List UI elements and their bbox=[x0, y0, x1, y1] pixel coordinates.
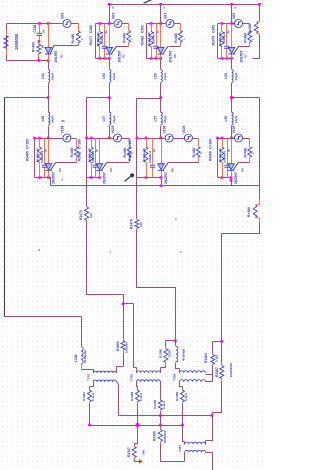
svg-text:0.1E3: 0.1E3 bbox=[215, 354, 219, 362]
svg-text:R=480: R=480 bbox=[122, 33, 126, 43]
wire R1390 lower loop bbox=[161, 444, 185, 462]
wire chain4 lower bbox=[231, 98, 233, 112]
capacitor C4 leads bbox=[226, 24, 228, 59]
wire stage8 leftwire bbox=[217, 139, 219, 178]
wire gate return bbox=[239, 46, 250, 48]
resistor R1347 bbox=[132, 447, 136, 458]
value 14uH lower bbox=[51, 116, 55, 123]
gate resistor leads bbox=[129, 139, 131, 163]
label R1390 bbox=[152, 431, 156, 441]
wire chain4 mid bbox=[231, 84, 233, 98]
resistor R1387 bbox=[220, 366, 224, 379]
resistor R1477 bbox=[98, 31, 102, 46]
node dots stage8 bottom bbox=[221, 176, 233, 179]
resistor R1485 leads bbox=[39, 139, 41, 178]
source V1081 bbox=[184, 134, 192, 142]
value R1500 bbox=[125, 342, 129, 353]
svg-text:C301: C301 bbox=[141, 25, 145, 33]
svg-text:V108: V108 bbox=[163, 125, 167, 133]
label R1389 bbox=[175, 392, 179, 401]
capacitor value bbox=[91, 148, 99, 163]
svg-text:R=480: R=480 bbox=[31, 42, 35, 52]
inductor L68 bbox=[48, 112, 50, 125]
junction dot chain4 row2 bbox=[230, 137, 233, 140]
gate resistor R=480 leads bbox=[180, 24, 182, 47]
svg-text:V1: V1 bbox=[60, 54, 64, 58]
inductor L56 leads bbox=[160, 69, 162, 84]
resistor R1475a leads bbox=[86, 206, 88, 222]
wire stage5 bottom bbox=[35, 177, 49, 179]
label R1480 bbox=[243, 148, 247, 158]
inductor L67 leads bbox=[109, 112, 111, 127]
label VA3 bbox=[111, 13, 115, 19]
junction dot busL main bbox=[136, 423, 140, 427]
label C301 bbox=[141, 25, 145, 33]
wire branch chain4 to right rail bbox=[232, 97, 260, 99]
wire chain3 lower bbox=[160, 98, 162, 112]
svg-text:0.1e-6: 0.1e-6 bbox=[162, 401, 166, 409]
junction dot node mid T3 bbox=[174, 340, 177, 343]
wire stage3 top bbox=[147, 23, 166, 25]
value 14uH lower bbox=[163, 116, 167, 123]
svg-text:2N1597: 2N1597 bbox=[103, 172, 107, 184]
label C305 bbox=[212, 25, 216, 33]
svg-text:10000000: 10000000 bbox=[163, 430, 167, 443]
thyristor 2N1597 leads bbox=[231, 139, 233, 178]
value 1 bbox=[199, 152, 203, 154]
resistor R1483 bbox=[144, 147, 148, 163]
value text snubber bbox=[142, 148, 146, 162]
wire source to gate res bbox=[193, 138, 199, 140]
node label 3 bbox=[39, 248, 41, 252]
svg-text:R1381: R1381 bbox=[82, 392, 86, 401]
junction dot chain2 row2 bbox=[108, 137, 111, 140]
gate resistor R=480 stage1 bbox=[76, 31, 80, 43]
resistor R1500 leads bbox=[123, 339, 125, 353]
wire chain1 mid bbox=[48, 84, 50, 98]
node label 4a bbox=[180, 250, 182, 254]
label V8 bbox=[241, 168, 245, 172]
wire stage2 left bbox=[95, 24, 97, 59]
wire to source0 bbox=[232, 138, 235, 140]
svg-text:C=187: C=187 bbox=[128, 139, 132, 149]
svg-text:C=186: C=186 bbox=[78, 139, 82, 149]
inductor L60 bbox=[109, 70, 111, 83]
svg-text:R1238: R1238 bbox=[153, 400, 157, 409]
svg-text:C287: C287 bbox=[168, 349, 172, 357]
svg-text:0.1e-6: 0.1e-6 bbox=[139, 393, 143, 401]
thyristor 2N1597 bbox=[106, 46, 117, 54]
label R1475a bbox=[79, 210, 83, 220]
source V1030 bbox=[114, 134, 122, 142]
transformer T308 primary bbox=[180, 371, 206, 373]
svg-text:L56: L56 bbox=[153, 73, 157, 79]
node dots stage2 bottom bbox=[98, 57, 110, 60]
label 2N1597 bbox=[103, 172, 107, 184]
label T308 bbox=[173, 374, 177, 381]
node dot stage1 cap top bbox=[38, 22, 41, 25]
svg-text:C=185: C=185 bbox=[26, 139, 30, 149]
svg-text:R=480: R=480 bbox=[70, 148, 74, 158]
gate resistor leads bbox=[198, 139, 200, 163]
wire stage6 bottom bbox=[87, 177, 100, 179]
wire branch chain3 bbox=[137, 99, 161, 139]
resistor R1389 leads bbox=[182, 390, 184, 404]
label cap name bbox=[209, 139, 213, 149]
wire gate return bbox=[169, 46, 181, 48]
label R=480 series bbox=[31, 42, 35, 52]
value R1387 bbox=[229, 363, 233, 377]
wire left branch top bbox=[4, 97, 6, 99]
capacitor C2 bbox=[102, 46, 107, 48]
wire stage8 cathode to bus bbox=[231, 178, 233, 186]
gate resistor R=480 leads bbox=[128, 24, 130, 47]
resistor R1384 bbox=[211, 355, 215, 365]
wire VA2 to R480 bbox=[72, 23, 79, 25]
transformer T206 secondary bbox=[137, 380, 161, 382]
junction dot bus stage7 bbox=[160, 184, 163, 187]
wire T2 sec right down bbox=[160, 382, 162, 400]
junction dot top bus / stage4 rail bbox=[230, 3, 233, 6]
svg-text:1e6: 1e6 bbox=[139, 222, 143, 227]
wire right rail to return bbox=[222, 223, 260, 342]
resistor R1480 inline bbox=[253, 204, 259, 218]
wire chain4 to row2 bbox=[231, 127, 233, 139]
wire R1389 to busL bbox=[182, 404, 184, 426]
svg-text:2u: 2u bbox=[152, 148, 156, 152]
resistor R1386 leads bbox=[165, 347, 167, 366]
junction dot chain2 bbox=[108, 96, 111, 99]
svg-text:24.1E3μH: 24.1E3μH bbox=[83, 350, 87, 363]
node dots stage7 top bbox=[136, 137, 148, 140]
svg-text:L67: L67 bbox=[102, 116, 106, 122]
wire T1 sec left down bbox=[90, 382, 94, 390]
value 1 bbox=[251, 38, 255, 40]
value 1e6 a bbox=[89, 213, 93, 218]
wire R1387 column bbox=[221, 342, 223, 364]
svg-text:L62: L62 bbox=[41, 73, 45, 79]
value R1238 bbox=[162, 401, 166, 409]
label R1500 bbox=[116, 341, 120, 351]
node label 11 bbox=[164, 6, 166, 10]
label L56 bbox=[153, 73, 157, 79]
thyristor 2N1597 leads bbox=[109, 24, 111, 59]
svg-text:R1500: R1500 bbox=[116, 341, 120, 351]
gate resistor leads bbox=[249, 139, 251, 163]
resistor R1384 leads bbox=[212, 354, 214, 366]
junction dot busU T2r bbox=[159, 414, 162, 417]
svg-text:56,494e-08: 56,494e-08 bbox=[218, 32, 222, 46]
wire stage4 rail from bus bbox=[231, 5, 233, 24]
inductor 48uH bbox=[176, 346, 178, 362]
svg-text:60: 60 bbox=[40, 44, 44, 48]
svg-text:V103: V103 bbox=[111, 125, 115, 133]
node dots stage5 top bbox=[33, 137, 41, 140]
capacitor value bbox=[222, 148, 230, 163]
capacitor bbox=[150, 165, 155, 167]
svg-text:2u: 2u bbox=[104, 30, 108, 34]
svg-text:L55: L55 bbox=[224, 116, 228, 122]
wire R1475b chain upper bbox=[136, 178, 138, 219]
gate resistor leads bbox=[76, 139, 78, 163]
svg-text:R=480: R=480 bbox=[192, 148, 196, 158]
wire R1500 to T1 right bbox=[117, 367, 124, 373]
gate resistor R=480 leads bbox=[249, 24, 251, 47]
svg-text:T397: T397 bbox=[178, 445, 182, 452]
wire L228 to T1 bbox=[82, 370, 94, 373]
wire branch chain2 bbox=[87, 98, 110, 139]
label V2 bbox=[122, 54, 126, 58]
transformer T102 secondary bbox=[93, 380, 116, 382]
svg-text:C305: C305 bbox=[212, 25, 216, 33]
value 48uH bbox=[181, 349, 185, 361]
wire gate return bbox=[117, 46, 129, 48]
wire stage8 top bbox=[218, 138, 235, 140]
wire R1500 upper bbox=[123, 295, 125, 304]
inductor L228 bbox=[81, 347, 83, 364]
label R1485 bbox=[26, 151, 30, 161]
svg-text:C=188: C=188 bbox=[209, 139, 213, 149]
thyristor V1 leads bbox=[48, 24, 50, 61]
svg-text:14μH: 14μH bbox=[163, 116, 167, 123]
label R=480 bbox=[122, 33, 126, 43]
junction dot return bbox=[221, 340, 224, 343]
label R1483 bbox=[128, 151, 132, 161]
svg-text:VA3: VA3 bbox=[111, 13, 115, 19]
wire stage4 top bbox=[218, 23, 235, 25]
source VA9 bbox=[235, 20, 243, 28]
label R1388 bbox=[130, 392, 134, 401]
label R1384 bbox=[204, 353, 208, 363]
label C288 bbox=[89, 25, 93, 33]
inductor L59 leads bbox=[231, 69, 233, 84]
svg-text:0.1e-6: 0.1e-6 bbox=[91, 393, 95, 401]
value text snubber bbox=[87, 148, 91, 162]
wire stage3 left bbox=[146, 24, 148, 59]
capacitor leads bbox=[95, 139, 97, 178]
svg-text:R1386: R1386 bbox=[158, 349, 162, 358]
svg-text:R1479: R1479 bbox=[212, 36, 216, 46]
svg-text:V3: V3 bbox=[58, 168, 62, 172]
node dots stage7 bottom bbox=[145, 176, 163, 179]
wire chain4 upper bbox=[231, 59, 233, 69]
node label 1 bbox=[110, 250, 112, 254]
junction dot chain1 bbox=[47, 96, 50, 99]
thyristor V1 bbox=[45, 46, 54, 54]
value R1389 bbox=[184, 393, 188, 401]
wire left rail bottom bbox=[5, 317, 82, 346]
label R1487 bbox=[78, 151, 82, 161]
resistor R1475b leads bbox=[136, 219, 138, 230]
label V6 bbox=[171, 168, 175, 172]
inductor L55 leads bbox=[231, 112, 233, 127]
wire R1381 to busL bbox=[89, 404, 91, 426]
label R1479 bbox=[212, 36, 216, 46]
value 14uH lower bbox=[234, 116, 238, 123]
wire R1388 to busL bbox=[137, 404, 139, 426]
svg-text:2N1597: 2N1597 bbox=[52, 172, 56, 184]
capacitor value bbox=[148, 148, 156, 163]
value R1384 bbox=[215, 354, 219, 362]
wire gate return stage1 bbox=[54, 45, 79, 47]
svg-text:R1483: R1483 bbox=[128, 151, 132, 161]
value R1390 bbox=[163, 430, 167, 443]
wire to source0 bbox=[162, 138, 165, 140]
gate resistor R=480 bbox=[196, 147, 200, 157]
svg-text:56,494e-08: 56,494e-08 bbox=[218, 148, 222, 162]
value 14uH bbox=[112, 73, 116, 80]
resistor R1482 leads bbox=[151, 24, 153, 59]
svg-text:2u: 2u bbox=[155, 30, 159, 34]
wire chain2 lower bbox=[109, 98, 111, 112]
wire T1 sec right to busU bbox=[117, 382, 119, 416]
wire chain3 to row2 bbox=[160, 127, 162, 139]
label R1480 bbox=[70, 148, 74, 158]
svg-text:1e6: 1e6 bbox=[89, 213, 93, 218]
label R1381 bbox=[82, 392, 86, 401]
node dots stage8 top bbox=[216, 137, 223, 140]
junction dot busL T397 bbox=[181, 424, 184, 427]
capacitor value text bbox=[222, 30, 230, 44]
label R=480 right bleed bbox=[248, 24, 252, 34]
svg-text:L68: L68 bbox=[41, 116, 45, 122]
node label 4b bbox=[175, 218, 177, 222]
wire T2 sec left down bbox=[137, 382, 138, 390]
svg-text:2N1597: 2N1597 bbox=[234, 172, 238, 184]
transformer T308 secondary bbox=[180, 380, 206, 382]
svg-text:2u: 2u bbox=[226, 30, 230, 34]
label source0 bbox=[163, 125, 167, 133]
source V1090 bbox=[234, 134, 242, 142]
thyristor 2N1597 leads bbox=[161, 139, 163, 178]
svg-text:14μH: 14μH bbox=[234, 116, 238, 123]
svg-text:R=480: R=480 bbox=[243, 33, 247, 43]
label C188 bbox=[33, 24, 37, 32]
inductor L68 leads bbox=[48, 112, 50, 127]
thyristor 2N1597 bbox=[45, 163, 56, 171]
label V3 bbox=[58, 168, 62, 172]
label R1480 bbox=[247, 207, 251, 217]
capacitor C188 bbox=[37, 33, 42, 35]
label L60 bbox=[102, 73, 106, 79]
resistor R1347 leads bbox=[134, 446, 136, 460]
label 2N1597 V1 bbox=[54, 51, 58, 63]
junction dot chain3 row2 bbox=[159, 137, 162, 140]
svg-text:R=480: R=480 bbox=[174, 33, 178, 43]
label R1475b bbox=[130, 219, 134, 229]
node dot C188/R junction bbox=[38, 40, 41, 43]
wire chain2 to row2 bbox=[109, 127, 111, 139]
inductor L62 bbox=[48, 70, 50, 83]
inductor 48uH leads bbox=[175, 346, 177, 364]
resistor R1381 bbox=[88, 390, 92, 402]
wire chain1 to row2 bbox=[48, 127, 50, 139]
wire rail to source VA3 bbox=[110, 23, 114, 25]
value 1 stage1 bbox=[80, 38, 84, 40]
svg-text:100000000: 100000000 bbox=[229, 363, 233, 377]
gate resistor R=480 bbox=[74, 147, 78, 157]
resistor R=480 series leads bbox=[38, 42, 40, 58]
wire right rail upper bbox=[253, 5, 260, 59]
svg-text:T206: T206 bbox=[130, 374, 134, 381]
node dots stage3 top bbox=[150, 22, 162, 25]
wire stage4 bottom bbox=[218, 58, 232, 60]
resistor charging 1000000 bbox=[4, 36, 8, 48]
capacitor bbox=[93, 165, 98, 167]
ground arrow red bbox=[134, 459, 142, 464]
label V7 bbox=[244, 54, 248, 58]
svg-text:2u: 2u bbox=[41, 29, 45, 33]
svg-text:R=480: R=480 bbox=[243, 148, 247, 158]
svg-text:R1347: R1347 bbox=[127, 447, 131, 457]
svg-text:V6: V6 bbox=[171, 168, 175, 172]
node dots stage4 top bbox=[221, 22, 233, 25]
source V1080 bbox=[165, 134, 173, 142]
svg-text:0.1e-6: 0.1e-6 bbox=[184, 393, 188, 401]
junction dot busL R1381 bbox=[88, 424, 91, 427]
resistor R1479 leads bbox=[221, 24, 223, 59]
wire stage7 leftwire bbox=[136, 139, 138, 178]
wire output bus upper bbox=[119, 415, 213, 417]
wire gate return bbox=[239, 162, 250, 164]
node label 12 bbox=[235, 7, 237, 10]
resistor R=480 series bbox=[37, 44, 41, 53]
svg-text:56,494e-08: 56,494e-08 bbox=[147, 32, 151, 46]
transformer T206 primary bbox=[137, 371, 161, 373]
wire chain1 upper bbox=[48, 61, 50, 69]
value text on resistor bbox=[218, 32, 222, 46]
resistor right bleed R1463 bbox=[254, 22, 259, 34]
resistor R1500 bbox=[121, 341, 125, 351]
wire R1387 lower bbox=[213, 382, 222, 416]
wire source to gate resistor bbox=[123, 23, 129, 25]
wire rail to source VA7 bbox=[161, 23, 166, 25]
value text snubber bbox=[36, 148, 40, 162]
transformer T397 secondary bbox=[185, 450, 206, 452]
label cap name bbox=[26, 139, 30, 149]
wire chain3 upper bbox=[160, 59, 162, 69]
gate resistor R=480 bbox=[178, 31, 182, 43]
label R=480 bbox=[174, 33, 178, 43]
resistor right bleed R1463 leads bbox=[259, 21, 261, 36]
thyristor 2N1597 bbox=[158, 163, 169, 171]
thyristor 2N1597 bbox=[157, 46, 168, 54]
wire stage2 top bbox=[96, 23, 114, 25]
inductor L62 leads bbox=[48, 69, 50, 84]
resistor R1387 leads bbox=[221, 364, 223, 382]
resistor R1475a bbox=[85, 207, 89, 221]
wire stage1 bottom bbox=[7, 60, 49, 62]
label R1477 bbox=[89, 36, 93, 46]
label VA9 bbox=[232, 13, 236, 19]
node dots stage3 bottom bbox=[150, 57, 162, 60]
wire R to bottom bbox=[38, 58, 40, 61]
label R1489 bbox=[209, 151, 213, 161]
svg-text:L60: L60 bbox=[102, 73, 106, 79]
wire source to gate res bbox=[243, 138, 250, 140]
svg-text:R1477: R1477 bbox=[89, 36, 93, 46]
label 2N1597 bbox=[52, 172, 56, 184]
wire stage4 left bbox=[217, 24, 219, 59]
capacitor bbox=[42, 165, 47, 167]
thyristor 2N1597 bbox=[228, 163, 239, 171]
wire chain2 mid bbox=[109, 84, 111, 98]
wire T397 top right feed bbox=[206, 416, 213, 445]
resistor R1489 bbox=[220, 147, 224, 163]
svg-text:L59: L59 bbox=[224, 73, 228, 79]
resistor R1388 leads bbox=[137, 390, 139, 404]
junction dot R1500 top bbox=[122, 303, 125, 306]
